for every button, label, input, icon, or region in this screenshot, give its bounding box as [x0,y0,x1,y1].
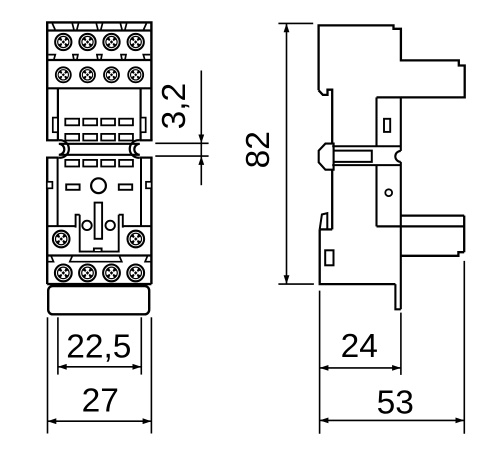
svg-text:82: 82 [240,131,277,168]
front view: clip lug left [53,118,58,133]
dim 22,5: arrow right [133,364,142,370]
dim 82: arrow top [284,23,290,32]
side view: small hole circle [385,189,392,196]
side view: latch line upper [332,145,401,147]
front view: inner wall left [57,88,59,140]
dim 82: extension line bottom [278,283,314,285]
dim 27: arrow right [143,418,152,424]
dim 22,5: extension line left [57,317,59,374]
side view: body left edge below clip [331,170,333,230]
side view: foot hook [320,213,328,229]
side view: step line at hook [320,228,333,230]
dim 27: extension line right [150,317,152,433]
svg-text:3,2: 3,2 [156,83,193,130]
dim 27: arrow left [48,418,57,424]
front view: top bar tick pair 3 [120,23,126,29]
side view: column slot [384,119,390,132]
side view: rear column right edge upper [400,97,402,150]
dim 3,2: dimension line [200,71,202,186]
screw terminal row4-2 [79,265,96,282]
side view: left edge chamfer hook [319,90,333,144]
front view: top bar tick pair 1 [72,23,78,29]
front view: riser tab left [76,215,80,228]
dim 27: extension line left [47,317,49,433]
screw terminal row1-1 [55,34,71,50]
front view: separator notch 1 [73,55,78,60]
dim 53: dimension line [320,419,465,421]
front view: lower trapezoid [70,256,122,262]
front view: inner wall right [140,88,142,140]
front view: dash slot left [66,184,79,189]
screw terminal row3-2 [127,231,144,248]
front view: U bottom notch box [94,248,102,251]
screw terminal row2-3 [104,67,119,82]
screw terminal row4-3 [103,265,120,282]
front view: middle inner wall right [140,158,142,227]
side view: latch line lower [332,164,401,166]
front view: separator notch 3 [121,55,126,60]
dim 3,2: extension line lower [155,155,208,157]
front view: line under row2 [47,87,151,89]
front view: top bar left tick [52,23,55,29]
front view: small hole right [106,221,115,230]
dim 24: arrow right [392,365,401,371]
dim 82: arrow bottom [284,275,290,284]
front view: contact slot r2-1 [65,134,79,141]
front view: contact slot r3-3 [101,160,115,167]
front view: center hole [91,178,106,193]
side view: contact pin [395,284,400,309]
dim 82: dimension line [286,23,288,284]
front view: notch stub top-left [46,139,59,141]
dim 27: dimension line [48,420,152,422]
side view: lower left edge and bottom [320,229,396,284]
front view: lower wedge left [47,256,53,262]
front view: contact slot r1-3 [101,119,115,126]
side view: foot bar right edge [463,216,465,253]
side view: body slot lower left [325,250,333,265]
front view: notch stub bottom-right [140,157,153,159]
front view: separator notch 2 [97,55,102,60]
front view: top bar tick pair 2 [96,23,102,29]
dim 24: extension line right [400,313,402,375]
dim 22,5: arrow left [58,364,67,370]
front view: clip lug right [141,118,146,133]
front view: rail web lines and inner arcs [59,144,140,155]
screw terminal row4-4 [127,265,144,282]
front view: bottom cover rounded rect [48,286,149,314]
front view: separator line under row1 [47,59,151,61]
front view: small hole left [82,221,91,230]
front view: body sides middle section [47,158,151,285]
dim 82: extension line top [278,22,313,24]
dim 53: arrow left [320,418,329,424]
front view: middle inner wall left [57,158,59,227]
side view: DIN clip [319,144,334,170]
screw terminal row4-1 [55,265,72,282]
front view: socket outer body top section [47,22,151,140]
side view: foot bar top [401,214,464,216]
dim 24: arrow left [320,365,329,371]
side view: bottom step [401,252,464,256]
dim 3,2: extension line upper [155,142,208,144]
front view: dash slot right [119,184,132,189]
dim 53: extension line right [463,261,465,434]
front view: lower wedge right [145,256,151,262]
front view: contact slot r2-3 [101,134,115,141]
front view: separator line lower [47,254,151,256]
front view: notch stub bottom-left [46,157,59,159]
dim 3,2: arrow lower [198,156,204,165]
front view: notch outer arc right [130,140,140,158]
front view: shelf line left [47,225,75,227]
front view: contact slot r3-4 [119,160,133,167]
front view: notch outer arc left [59,140,69,158]
screw terminal row2-2 [80,67,95,82]
front view: separator notch right end [143,55,150,60]
screw terminal row1-2 [79,34,95,50]
screw terminal row1-3 [103,34,119,50]
side view: rear column left edge upper [375,97,377,146]
front view: contact slot r2-2 [83,134,97,141]
dim 24: extension line left (shared with 53) [319,291,321,434]
side view: foot bar bottom [377,225,465,227]
front view: top bar bottom edge [47,29,151,31]
side view: top block outline [319,25,465,97]
dim 53: arrow right [456,418,465,424]
side view: rear column right edge lower [400,162,402,309]
svg-text:27: 27 [82,382,119,419]
front view: contact slot r1-4 [119,119,133,126]
front view: contact slot r1-2 [83,119,97,126]
front view: contact slot r3-2 [83,160,97,167]
front view: contact slot r3-1 [65,160,79,167]
dim 3,2: arrow upper [198,135,204,144]
dim 22,5: extension line right [140,317,142,374]
front view: riser tab right [119,215,123,228]
side view: pin hole semicircle [395,151,401,162]
screw terminal row1-4 [128,34,144,50]
screw terminal row3-1 [53,231,70,248]
side view: rear column left edge lower [375,165,377,226]
dim 22,5: dimension line [58,366,141,368]
side view: latch bar [334,151,372,162]
screw terminal row2-1 [56,67,71,82]
front view: edge square left [47,182,53,189]
front view: top bar right tick [144,23,147,29]
front view: notch stub top-right [140,139,153,141]
front view: inner U cavity [80,215,119,252]
dim 24: dimension line [320,367,401,369]
svg-text:22,5: 22,5 [66,328,131,365]
front view: separator notch left end [48,55,55,60]
front view: bottom band line [47,283,151,285]
front view: edge square right [146,182,152,189]
front view: shelf line right [123,225,152,227]
screw terminal row2-4 [128,67,143,82]
front view: contact slot r1-1 [65,119,79,126]
svg-text:53: 53 [377,385,414,422]
front view: contact slot r2-4 [119,134,133,141]
svg-text:24: 24 [341,328,378,365]
front view: center post [95,203,103,239]
